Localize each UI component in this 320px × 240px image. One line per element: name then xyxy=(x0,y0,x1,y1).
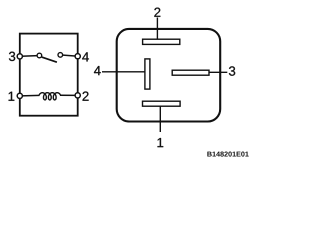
leader line pin 3 xyxy=(209,71,228,73)
terminal 1 circle xyxy=(17,93,22,98)
pin 1 slot xyxy=(143,101,181,106)
switch contact circle right xyxy=(58,53,63,58)
label terminal 2 xyxy=(83,91,89,100)
leader line pin 1 xyxy=(159,106,161,132)
label terminal 4 xyxy=(82,52,89,61)
wire: terminal 3 to switch contact xyxy=(21,55,38,58)
terminal 3 circle xyxy=(17,54,22,59)
label pin 4 xyxy=(94,66,101,75)
relay coil winding xyxy=(39,93,61,100)
label pin 3 xyxy=(229,66,235,75)
figure code B148201E01 xyxy=(207,152,248,157)
wire: coil to terminal 2 xyxy=(60,94,77,96)
terminal 2 circle xyxy=(75,93,80,98)
label terminal 1 xyxy=(9,92,15,101)
switch blade (normally open contact) xyxy=(42,57,57,62)
pin 2 slot xyxy=(143,39,180,44)
leader line pin 4 xyxy=(102,71,145,73)
switch contact circle left xyxy=(37,53,42,58)
wire: terminal 1 to coil xyxy=(21,94,40,97)
label pin 2 xyxy=(154,8,160,17)
wire: switch contact to terminal 4 xyxy=(62,55,77,56)
leader line pin 2 xyxy=(156,18,158,40)
pin 3 slot xyxy=(172,70,209,75)
label terminal 3 xyxy=(9,52,15,61)
terminal 4 circle xyxy=(75,54,80,59)
relay body outline (pin-side view) xyxy=(117,29,221,122)
relay internal-circuit box xyxy=(20,34,78,116)
label pin 1 xyxy=(158,138,164,147)
pin 4 slot xyxy=(145,59,150,89)
